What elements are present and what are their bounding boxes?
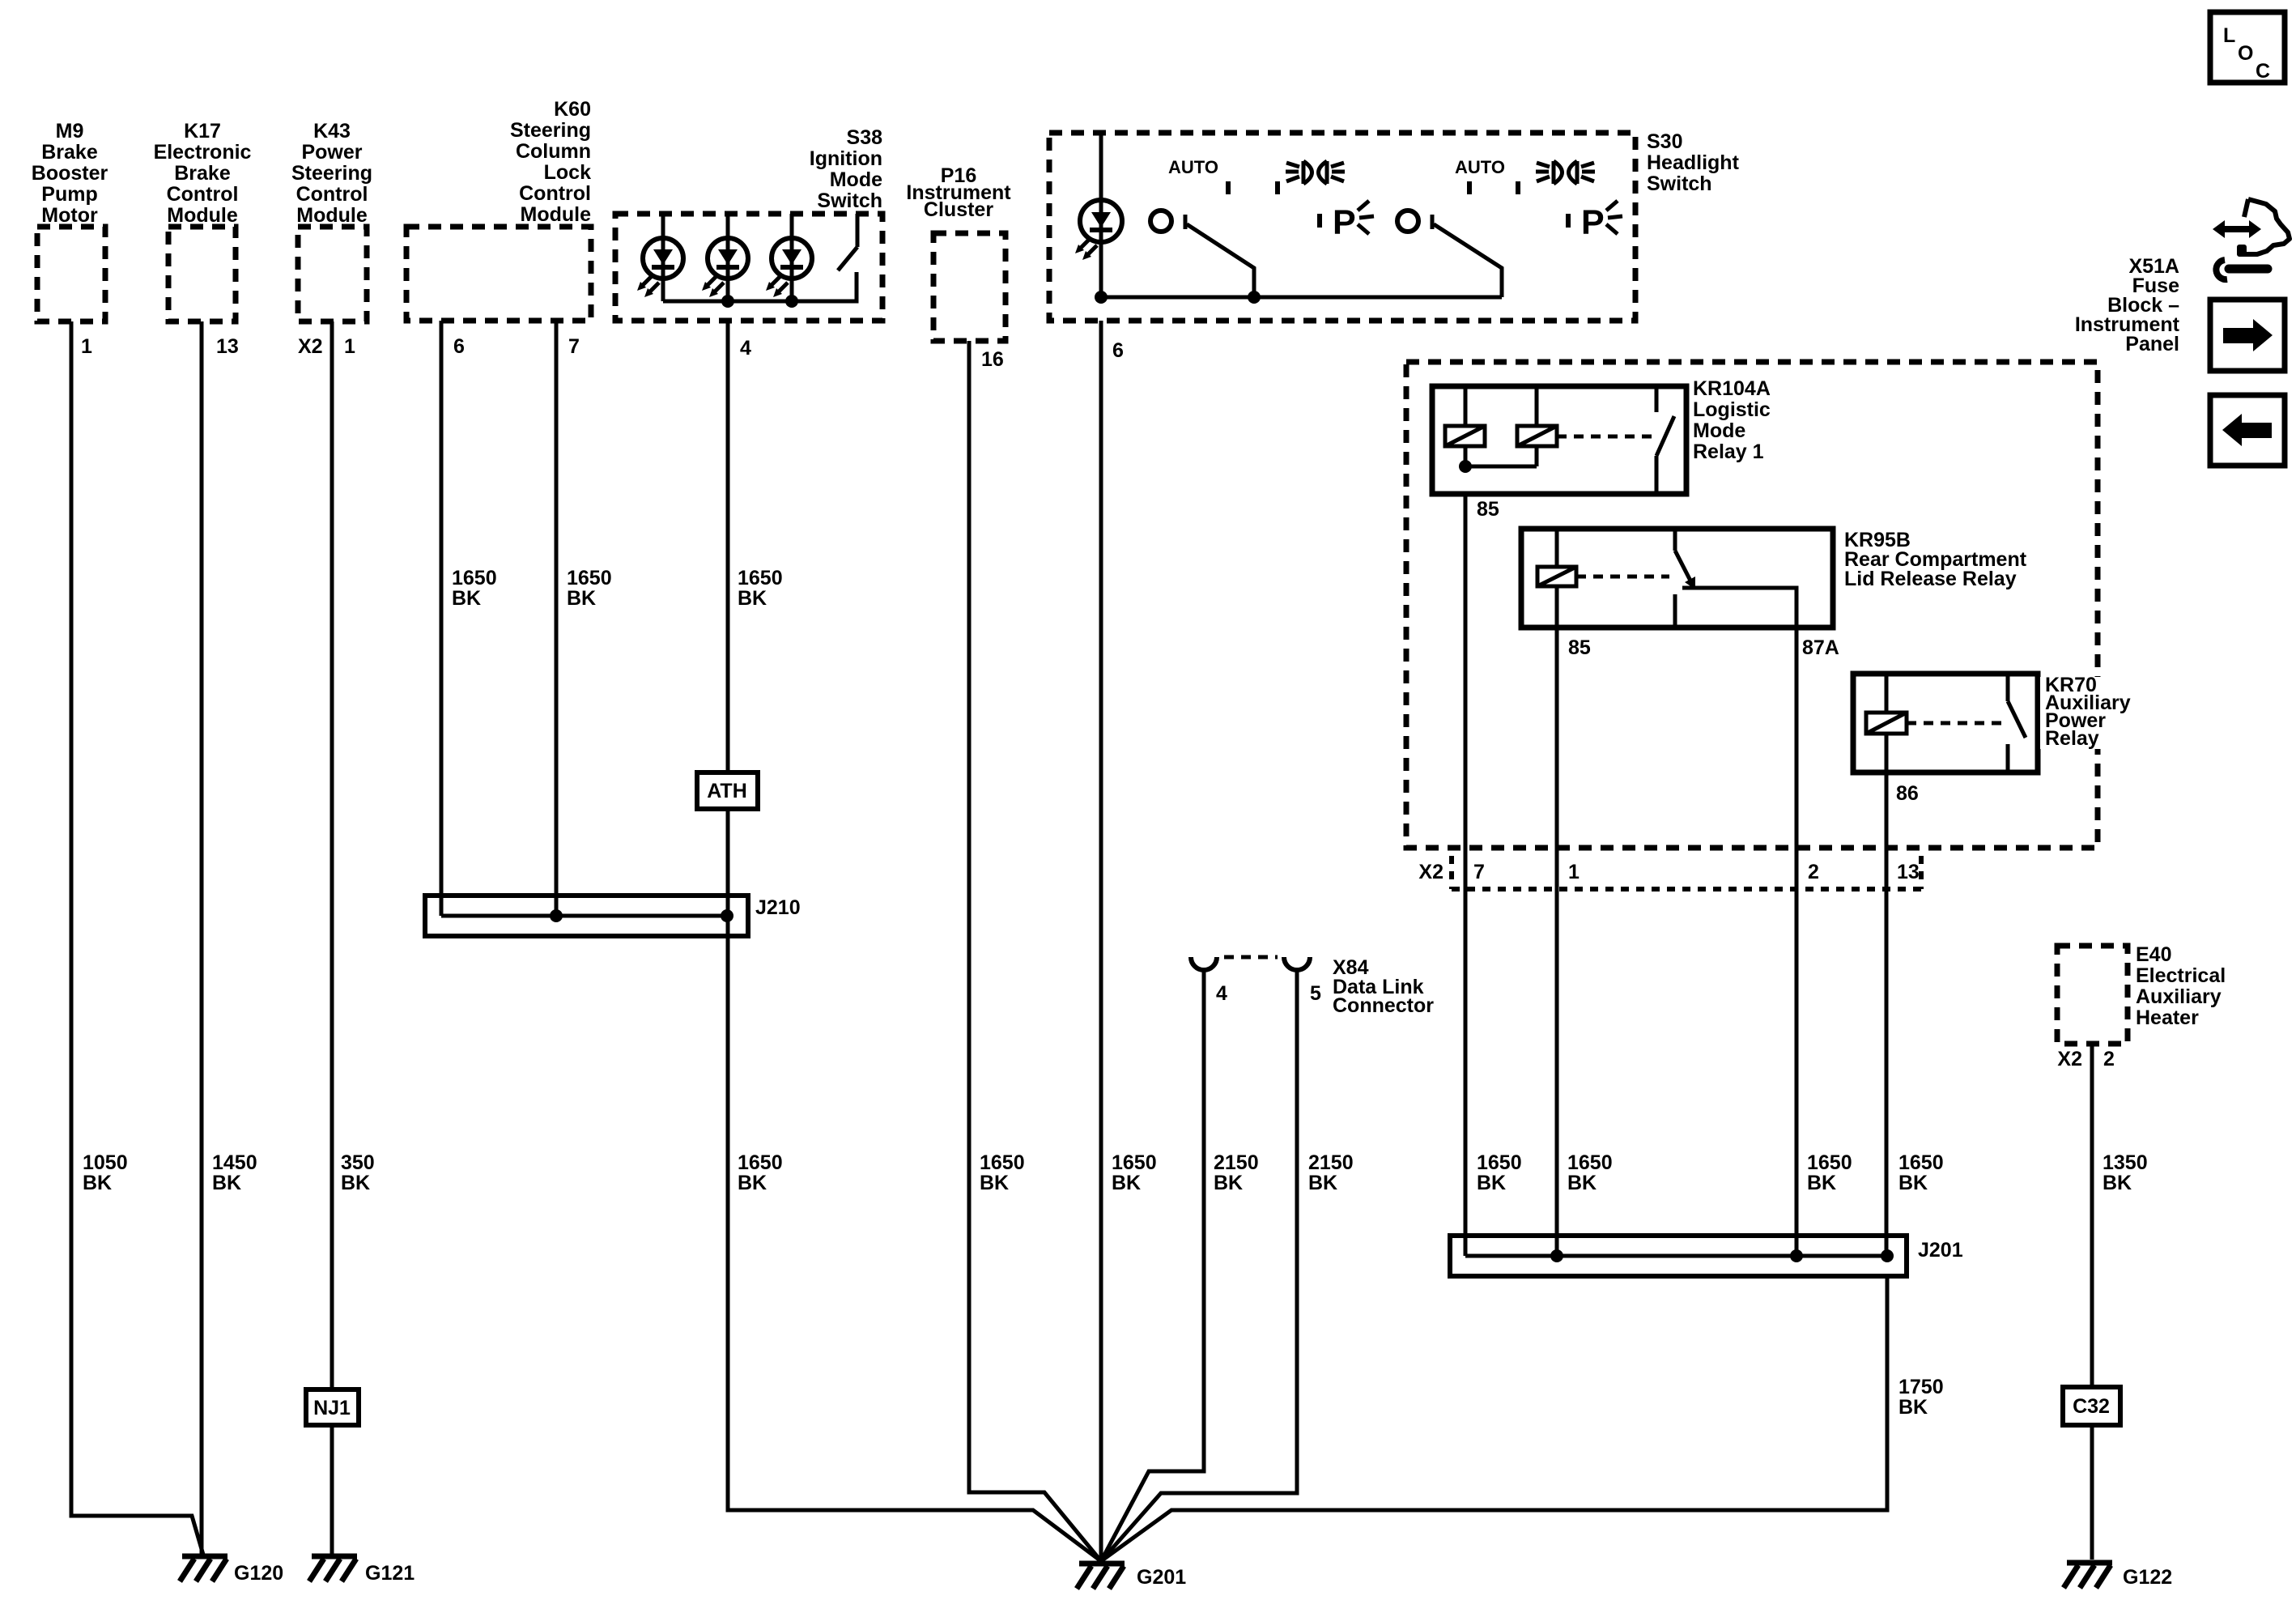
svg-text:1650: 1650 <box>738 567 783 589</box>
wire LED bus in S38 <box>663 272 857 308</box>
svg-text:6: 6 <box>453 335 465 358</box>
module K17 Electronic Brake Control Module <box>154 120 252 321</box>
svg-text:C32: C32 <box>2073 1395 2110 1418</box>
module P16 Instrument Cluster <box>906 164 1011 341</box>
svg-text:2150: 2150 <box>1308 1151 1354 1174</box>
svg-text:BK: BK <box>1567 1172 1597 1194</box>
svg-text:Heater: Heater <box>2136 1006 2199 1029</box>
wire label 1350 BK <box>2103 1151 2148 1194</box>
wire label 1050 BK <box>83 1151 128 1194</box>
svg-text:2150: 2150 <box>1214 1151 1259 1174</box>
wire P16 pin 16 to G201 (1650 BK) <box>969 341 1101 1561</box>
svg-text:Control: Control <box>296 183 368 206</box>
svg-text:X2: X2 <box>1418 861 1444 883</box>
splice pack J210 <box>425 896 801 936</box>
LED in S30 <box>1075 133 1122 297</box>
svg-text:S30: S30 <box>1647 130 1682 153</box>
svg-text:2: 2 <box>2103 1048 2115 1070</box>
svg-text:Booster: Booster <box>32 162 108 185</box>
svg-text:1050: 1050 <box>83 1151 128 1174</box>
svg-text:Headlight: Headlight <box>1647 151 1740 174</box>
wire label 1650 BK <box>1898 1151 1944 1194</box>
module K43 Power Steering Control Module <box>291 120 372 321</box>
icon arrow left box <box>2210 395 2285 466</box>
ground G120 <box>180 1556 283 1585</box>
wire label 1650 BK <box>567 567 612 610</box>
svg-text:Ignition: Ignition <box>810 147 882 170</box>
svg-text:Lid Release Relay: Lid Release Relay <box>1844 568 2017 590</box>
svg-text:Steering: Steering <box>510 119 591 142</box>
relay coil of KR95B <box>1537 529 1576 628</box>
switch contact in S38 <box>838 214 857 301</box>
module M9 Brake Booster Pump Motor <box>32 120 108 321</box>
wire M9 pin 1 to G120 (1050 BK) <box>71 321 203 1555</box>
svg-text:1650: 1650 <box>567 567 612 589</box>
svg-text:Panel: Panel <box>2125 333 2179 355</box>
svg-text:Logistic: Logistic <box>1693 398 1771 421</box>
svg-text:13: 13 <box>216 335 239 358</box>
relay switch contact of KR95B <box>1675 529 1796 628</box>
wire KR104A pin 85 to J201 (1650 BK) <box>1464 494 1468 1256</box>
wire E40 pin 2 to G122 (1350 BK) <box>2090 1044 2094 1560</box>
svg-text:1350: 1350 <box>2103 1151 2148 1174</box>
wire S38 pin 4 to G201 (1650 BK) <box>728 321 1101 1561</box>
svg-text:O: O <box>2238 42 2253 65</box>
svg-text:KR104A: KR104A <box>1693 377 1771 400</box>
svg-text:2: 2 <box>1808 861 1819 883</box>
relay control dashed link KR104A <box>1557 435 1652 439</box>
svg-text:BK: BK <box>980 1172 1009 1194</box>
relay switch contact of KR70 <box>2008 674 2026 772</box>
svg-text:Column: Column <box>516 140 591 163</box>
svg-text:1: 1 <box>344 335 355 358</box>
svg-text:BK: BK <box>452 587 481 610</box>
wire K43 pin 1 to G121 (350 BK) <box>330 321 334 1555</box>
wire K60 pin 6 to J210 (1650 BK) <box>440 321 444 916</box>
ground G121 <box>309 1556 415 1585</box>
wire X84 pin 4 to G201 (2150 BK) <box>1101 969 1204 1561</box>
heater E40 Electrical Auxiliary Heater <box>2057 943 2226 1044</box>
wire KR95B pin 87A to J201 (1650 BK) <box>1795 628 1799 1256</box>
svg-text:BK: BK <box>567 587 596 610</box>
svg-text:4: 4 <box>740 337 751 360</box>
svg-text:6: 6 <box>1112 339 1124 362</box>
wire label 1650 BK <box>452 567 497 610</box>
wire K17 pin 13 to G120 (1450 BK) <box>200 321 204 1555</box>
svg-text:1: 1 <box>1568 861 1580 883</box>
svg-text:BK: BK <box>1898 1172 1928 1194</box>
svg-text:Electrical: Electrical <box>2136 964 2226 987</box>
wire K60 pin 7 to J210 (1650 BK) <box>555 321 559 916</box>
icon hand with double arrow <box>2213 199 2290 254</box>
svg-text:Mode: Mode <box>1693 419 1745 442</box>
svg-text:K17: K17 <box>184 120 221 143</box>
svg-text:Control: Control <box>519 182 591 205</box>
svg-text:C: C <box>2256 60 2270 83</box>
svg-text:S38: S38 <box>847 126 883 149</box>
switch contact 1 in S30 <box>1150 211 1254 297</box>
svg-text:Electronic: Electronic <box>154 141 252 164</box>
switch contact 2 in S30 <box>1397 211 1502 297</box>
relay KR70 Auxiliary Power Relay <box>1853 674 2141 772</box>
svg-text:Power: Power <box>301 141 362 164</box>
svg-text:7: 7 <box>1473 861 1485 883</box>
svg-text:4: 4 <box>1216 982 1227 1005</box>
svg-text:Relay 1: Relay 1 <box>1693 440 1764 463</box>
wire S30 pin 6 to G201 (1650 BK) <box>1099 321 1103 1561</box>
svg-text:13: 13 <box>1897 861 1920 883</box>
svg-text:1450: 1450 <box>212 1151 257 1174</box>
splice pack J201 <box>1450 1236 1963 1276</box>
svg-text:AUTO: AUTO <box>1455 157 1505 177</box>
fuse block X51A Fuse Block - Instrument Panel <box>1406 255 2180 848</box>
position tick marks group 2 <box>1469 181 1518 194</box>
svg-text:AUTO: AUTO <box>1168 157 1218 177</box>
wire KR95B pin 85 to J201 (1650 BK) <box>1555 628 1559 1256</box>
svg-text:NJ1: NJ1 <box>313 1397 351 1419</box>
splice NJ1 <box>306 1389 359 1425</box>
svg-text:1650: 1650 <box>1112 1151 1157 1174</box>
svg-text:Module: Module <box>167 204 238 227</box>
svg-text:G201: G201 <box>1137 1566 1186 1589</box>
module K60 Steering Column Lock Control Module <box>406 98 591 321</box>
wire label 1650 BK <box>738 567 783 610</box>
connector C32 <box>2063 1387 2120 1425</box>
svg-text:BK: BK <box>1308 1172 1337 1194</box>
headlight icon 1 <box>1286 161 1345 184</box>
svg-text:1650: 1650 <box>738 1151 783 1174</box>
wire label 2150 BK <box>1214 1151 1259 1194</box>
svg-text:Cluster: Cluster <box>924 198 993 221</box>
wire label 1650 BK <box>738 1151 783 1194</box>
svg-text:Module: Module <box>296 204 368 227</box>
headlight icon 2 <box>1536 161 1595 184</box>
switch S38 Ignition Mode Switch <box>615 126 882 321</box>
wire X84 pin 5 to G201 (2150 BK) <box>1101 969 1297 1561</box>
svg-text:Brake: Brake <box>174 162 231 185</box>
wire label 1450 BK <box>212 1151 257 1194</box>
svg-text:L: L <box>2223 24 2235 47</box>
wire label 1650 BK <box>1567 1151 1613 1194</box>
pin X2 2 of E40 <box>2057 1048 2115 1070</box>
marker LOC box <box>2210 12 2285 83</box>
wire label 1650 BK <box>980 1151 1025 1194</box>
svg-text:J201: J201 <box>1918 1239 1963 1262</box>
wire coil commoning in KR104A <box>1459 460 1537 473</box>
svg-text:1650: 1650 <box>1898 1151 1944 1174</box>
svg-text:M9: M9 <box>56 120 84 143</box>
svg-text:G121: G121 <box>365 1562 415 1585</box>
svg-text:Auxiliary: Auxiliary <box>2136 985 2222 1008</box>
svg-text:BK: BK <box>738 587 767 610</box>
svg-text:BK: BK <box>83 1172 112 1194</box>
svg-text:BK: BK <box>1112 1172 1141 1194</box>
svg-text:E40: E40 <box>2136 943 2171 966</box>
icon wrench <box>2216 260 2268 279</box>
pin X2 1 of K43 <box>298 335 355 358</box>
svg-text:Relay: Relay <box>2045 727 2099 750</box>
svg-text:BK: BK <box>1214 1172 1243 1194</box>
svg-text:1650: 1650 <box>1807 1151 1852 1174</box>
svg-text:7: 7 <box>568 335 580 358</box>
svg-text:1650: 1650 <box>452 567 497 589</box>
LED 3 in S38 <box>766 214 812 301</box>
wire label 1650 BK <box>1807 1151 1852 1194</box>
parking lamp icon 2 <box>1568 201 1622 242</box>
svg-text:Motor: Motor <box>41 204 98 227</box>
wire KR70 pin 86 to J201 (1650 BK) <box>1885 772 1889 1256</box>
wire label 1650 BK <box>1477 1151 1522 1194</box>
svg-text:K43: K43 <box>313 120 351 143</box>
svg-text:X2: X2 <box>2057 1048 2082 1070</box>
ground G122 <box>2064 1563 2172 1589</box>
svg-text:Steering: Steering <box>291 162 372 185</box>
svg-text:Lock: Lock <box>544 161 591 184</box>
svg-text:1: 1 <box>81 335 92 358</box>
svg-text:350: 350 <box>341 1151 375 1174</box>
svg-text:Module: Module <box>521 203 592 226</box>
relay switch contact of KR104A <box>1656 386 1674 494</box>
relay control dashed link KR70 <box>1907 721 2002 726</box>
svg-text:1650: 1650 <box>1567 1151 1613 1174</box>
LED 1 in S38 <box>637 214 683 301</box>
svg-text:Mode: Mode <box>830 168 882 191</box>
svg-text:BK: BK <box>1807 1172 1836 1194</box>
svg-text:BK: BK <box>1477 1172 1506 1194</box>
position tick marks group 1 <box>1228 181 1278 194</box>
relay coil 2 of KR104A <box>1517 386 1557 466</box>
relay KR95B Rear Compartment Lid Release Relay <box>1521 529 2027 628</box>
wire label 1750 BK <box>1898 1376 1944 1419</box>
wire label 1650 BK <box>1112 1151 1157 1194</box>
ground G201 <box>1077 1564 1186 1589</box>
svg-text:86: 86 <box>1896 782 1919 805</box>
wire label 2150 BK <box>1308 1151 1354 1194</box>
svg-text:X2: X2 <box>298 335 323 358</box>
svg-text:1650: 1650 <box>980 1151 1025 1174</box>
svg-text:J210: J210 <box>755 896 801 919</box>
svg-text:Brake: Brake <box>41 141 98 164</box>
svg-text:BK: BK <box>212 1172 241 1194</box>
svg-text:ATH: ATH <box>707 780 747 802</box>
relay KR104A Logistic Mode Relay 1 <box>1432 377 1771 494</box>
svg-text:16: 16 <box>981 348 1004 371</box>
icon arrow right box <box>2210 300 2285 371</box>
svg-text:1650: 1650 <box>1477 1151 1522 1174</box>
wire J201 to G201 (1750 BK) <box>1101 1276 1887 1561</box>
svg-text:87A: 87A <box>1802 636 1839 659</box>
svg-text:G120: G120 <box>234 1562 283 1585</box>
connector ATH <box>697 772 758 809</box>
relay coil of KR70 <box>1866 674 1907 772</box>
svg-text:5: 5 <box>1310 982 1321 1005</box>
svg-text:BK: BK <box>341 1172 370 1194</box>
svg-text:BK: BK <box>1898 1396 1928 1419</box>
connector X2 strip of fuse block <box>1418 856 1921 889</box>
parking lamp icon 1 <box>1320 201 1374 242</box>
wire common bus in S30 <box>1095 291 1502 304</box>
switch S30 Headlight Switch <box>1049 130 1740 321</box>
wire label 350 BK <box>341 1151 375 1194</box>
svg-text:Switch: Switch <box>817 189 882 212</box>
LED 2 in S38 <box>702 214 748 301</box>
svg-text:Pump: Pump <box>41 183 97 206</box>
svg-text:BK: BK <box>2103 1172 2132 1194</box>
svg-text:P: P <box>1581 203 1605 242</box>
svg-text:BK: BK <box>738 1172 767 1194</box>
svg-text:Control: Control <box>167 183 239 206</box>
svg-text:85: 85 <box>1477 498 1499 521</box>
svg-text:1750: 1750 <box>1898 1376 1944 1398</box>
svg-text:Switch: Switch <box>1647 172 1712 195</box>
svg-text:G122: G122 <box>2123 1566 2172 1589</box>
svg-text:K60: K60 <box>554 98 591 121</box>
svg-text:85: 85 <box>1568 636 1591 659</box>
relay coil 1 of KR104A <box>1445 386 1485 466</box>
relay control dashed link KR95B <box>1576 575 1669 579</box>
svg-text:P: P <box>1333 203 1356 242</box>
svg-text:Connector: Connector <box>1333 994 1434 1017</box>
connector X84 Data Link Connector <box>1191 956 1434 1017</box>
